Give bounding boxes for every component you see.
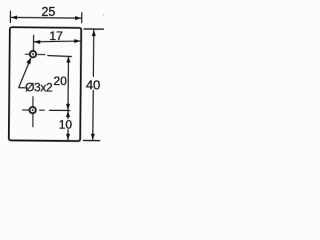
- dimension 20 arrow down: [66, 104, 70, 110]
- leader line from hole H1: [19, 58, 31, 87]
- hole H1 centerline up (17 extension): [32, 35, 34, 50]
- hole H2 centerline right dash: [40, 109, 45, 111]
- dimension 25 arrow right: [75, 16, 81, 20]
- svg-text:17: 17: [49, 29, 63, 43]
- leader landing line: [19, 87, 27, 89]
- dimension 40 arrow up: [92, 30, 96, 36]
- leader arrowhead at hole H1: [26, 57, 31, 64]
- dimension 17 arrow left: [34, 40, 40, 44]
- dimension 25 extension line right: [81, 13, 83, 23]
- dimension 17 line: [34, 41, 81, 43]
- dimension 40 line upper: [92, 30, 94, 77]
- svg-text:25: 25: [41, 5, 55, 19]
- speckle: [96, 30, 97, 31]
- dimension 20 line: [67, 56, 70, 110]
- svg-text:20: 20: [53, 74, 67, 88]
- dimension 40 arrow down: [91, 134, 95, 140]
- svg-text:10: 10: [59, 118, 73, 132]
- dimension 10 arrow up: [66, 111, 70, 117]
- dimension 40 top extension line: [84, 28, 103, 30]
- hole H1 center dot: [32, 53, 34, 55]
- dimension 10 arrow down: [66, 134, 70, 140]
- dimension 25 extension line left: [9, 11, 11, 22]
- svg-text:Ø3x2: Ø3x2: [25, 80, 53, 94]
- dimension 40 bottom extension line: [83, 139, 99, 141]
- hole H1 circle: [30, 51, 36, 57]
- dimension 10 line lower: [67, 130, 69, 140]
- dimension 25 line: [11, 16, 82, 19]
- dimension 20 arrow up: [66, 56, 70, 62]
- hole H1 centerline left arm: [25, 53, 29, 55]
- hole H2 circle: [29, 107, 35, 113]
- hole H2 centerline up arm: [32, 97, 34, 107]
- svg-text:40: 40: [86, 77, 101, 92]
- hole H1 centerline right dash: [38, 54, 45, 56]
- dimension 40 line lower: [92, 90, 94, 140]
- dimension 25 arrow left: [11, 15, 17, 19]
- dimension 17 arrow right: [74, 39, 80, 43]
- hole H2 center dot: [32, 109, 34, 111]
- hole H1 centerline extension to 20-dim: [48, 56, 72, 57]
- hole H2 centerline left arm: [22, 109, 28, 111]
- dimension 10 line upper: [67, 111, 69, 119]
- speckle: [103, 14, 105, 16]
- hole H2 centerline down arm: [32, 114, 34, 127]
- plate outline: [9, 27, 81, 141]
- hole H2 centerline extension to dims: [49, 109, 69, 111]
